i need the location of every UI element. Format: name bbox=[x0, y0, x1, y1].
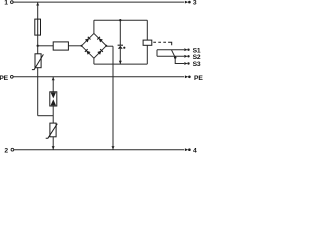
wire GDT to varistor2 bbox=[52, 106, 54, 123]
svg-text:PE: PE bbox=[194, 75, 203, 82]
wire relay top rail bbox=[94, 19, 147, 21]
wire fuse to node A bbox=[37, 35, 39, 46]
contact left edge bbox=[156, 50, 158, 57]
contact lever bbox=[171, 50, 175, 58]
bridge diode bottom-left bbox=[86, 51, 90, 55]
terminal 2 circle bbox=[11, 148, 14, 151]
svg-text:PE: PE bbox=[0, 75, 9, 82]
bridge diode top-left bbox=[85, 38, 89, 42]
wire TVS top bbox=[119, 20, 121, 45]
terminal 3 dot bbox=[188, 1, 191, 4]
contact S1 line bbox=[157, 49, 184, 51]
wire varistor2 to bottom rail bbox=[52, 137, 54, 150]
wire TVS bottom bbox=[119, 49, 121, 64]
suppressor diode V1 side mark bbox=[123, 47, 125, 49]
contact S3 wire bbox=[175, 58, 184, 64]
dashed link corner bbox=[168, 42, 172, 45]
wire top rail bbox=[13, 1, 184, 3]
wire connector horizontal bbox=[38, 115, 54, 117]
terminal 1 circle bbox=[10, 1, 13, 4]
svg-text:1: 1 bbox=[4, 0, 8, 7]
terminal 4 dot bbox=[188, 148, 191, 151]
junction arrow GDT to PE bbox=[52, 77, 55, 80]
gas discharge tube GDT bbox=[50, 92, 57, 106]
wire relay bottom rail bbox=[94, 63, 147, 65]
bridge right vertex dot bbox=[105, 45, 107, 47]
lever pivot dot bbox=[174, 56, 177, 59]
contact S3 dot bbox=[187, 62, 189, 64]
junction arrow column1 at top rail bbox=[36, 3, 39, 6]
junction arrow TVS to relay rail bbox=[119, 61, 122, 64]
contact S2 dot bbox=[187, 55, 189, 57]
PE terminal circle bbox=[10, 75, 13, 78]
resistor R3 bbox=[53, 42, 68, 50]
PE right dot bbox=[188, 76, 191, 79]
varistor R2 (MOV) bbox=[50, 123, 56, 137]
wire PE crossing down to connector bbox=[37, 77, 39, 116]
contact S1 dot bbox=[187, 49, 189, 51]
junction arrow varistor2 to bottom rail bbox=[52, 146, 55, 149]
wire column1 top bbox=[37, 2, 39, 19]
node A junction dot bbox=[37, 45, 39, 47]
wire resistor to bridge bbox=[68, 45, 81, 47]
wire bridge bottom vertex down bbox=[93, 58, 95, 64]
svg-text:S2: S2 bbox=[193, 54, 201, 61]
wire corner down through relay rail to bottom rail bbox=[112, 46, 114, 150]
suppressor diode V1 triangle bbox=[118, 46, 123, 49]
svg-text:4: 4 bbox=[193, 148, 197, 155]
dashed actuator link bbox=[153, 41, 166, 43]
fuse F1 bbox=[35, 19, 41, 35]
wire bridge top vertex up bbox=[93, 20, 95, 33]
relay coil K1 bbox=[143, 40, 152, 45]
wire PE rail bbox=[13, 76, 184, 78]
bridge diode top-right bbox=[99, 38, 103, 42]
svg-text:2: 2 bbox=[4, 148, 8, 155]
svg-text:S3: S3 bbox=[193, 61, 201, 68]
bridge diode bottom-right bbox=[97, 51, 101, 55]
varistor R1 (MOV) bbox=[35, 54, 41, 68]
PE right arrow bbox=[185, 75, 188, 78]
wire bottom rail bbox=[14, 149, 184, 151]
bridge left vertex dot bbox=[81, 45, 83, 47]
terminal 3 arrow bbox=[185, 1, 188, 4]
svg-text:3: 3 bbox=[193, 0, 197, 7]
wire node A to varistor1 bbox=[37, 46, 39, 54]
junction arrow at bottom rail bbox=[112, 146, 115, 149]
wire coil top bbox=[146, 20, 148, 40]
terminal 4 arrow bbox=[185, 148, 188, 151]
wire coil bottom bbox=[146, 45, 148, 64]
bridge rectifier B1 outline bbox=[82, 33, 107, 58]
wire node A to resistor bbox=[38, 45, 54, 47]
suppressor diode V1 bar bbox=[118, 44, 123, 46]
wire varistor1 to PE crossing bbox=[37, 68, 39, 77]
wire PE down to GDT bbox=[52, 77, 54, 92]
wire bridge right vertex to corner bbox=[106, 45, 113, 47]
junction dot TVS top bbox=[119, 19, 121, 21]
contact S2 line bbox=[157, 55, 184, 57]
